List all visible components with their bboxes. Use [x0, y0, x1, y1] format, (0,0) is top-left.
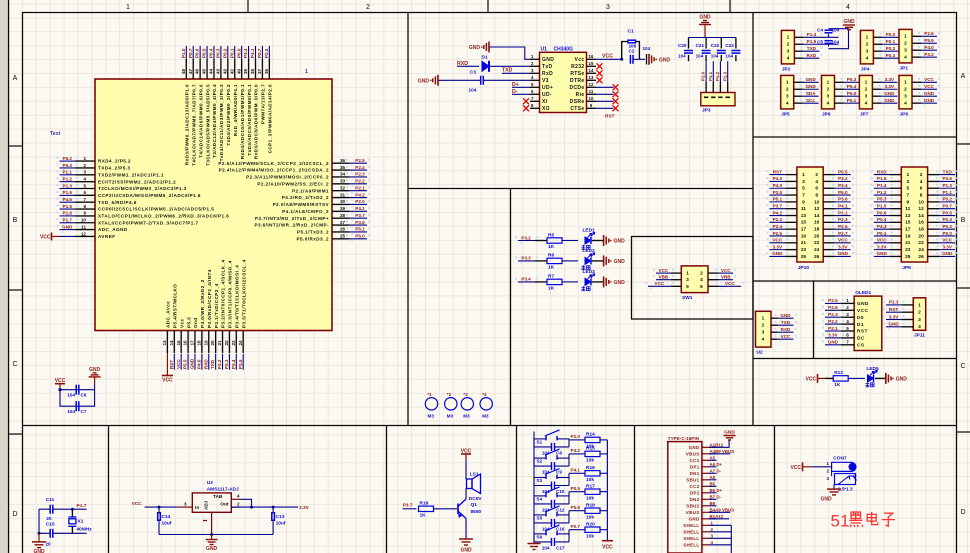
svg-text:Vcc: Vcc	[179, 318, 184, 328]
svg-text:P2.3: P2.3	[838, 217, 848, 222]
svg-text:D1: D1	[857, 322, 864, 328]
U4 pin 7 (TXD_6/RD/P4.6)	[57, 197, 137, 206]
svg-text:P3.4: P3.4	[838, 183, 848, 188]
ground GND at LED5	[885, 373, 887, 384]
U1 pin 16 Vcc	[575, 54, 596, 63]
U4 pin 9 (XTALO/CCP1/MCLKO_2/PWM6_2/RXD_3/ADC6/P1.6)	[57, 211, 230, 220]
zone tick marks left border	[9, 145, 23, 147]
svg-text:2: 2	[865, 86, 868, 92]
U4 pin 1 (RXD4_2/P5.2)	[57, 156, 132, 165]
svg-text:P0.7: P0.7	[188, 48, 193, 58]
svg-text:6: 6	[815, 186, 818, 192]
svg-text:A6 D+: A6 D+	[710, 462, 723, 467]
U1 pin 5 UD+	[530, 82, 553, 91]
svg-text:32: 32	[340, 185, 346, 190]
JP5 pin 2 wire net GND	[794, 84, 822, 93]
svg-text:4: 4	[786, 100, 789, 106]
JP9 pin 26 wire net GND	[928, 251, 959, 260]
J1 pin 1 SHELL	[683, 523, 709, 528]
capacitor C22 104	[711, 38, 726, 62]
section divider vertical x516 (buzzer | buttons)	[516, 426, 518, 553]
svg-text:CCP1_3/PWM6A/AD14/P2.6: CCP1_3/PWM6A/AD14/P2.6	[268, 84, 273, 153]
JP1 pin 4 wire net P3.2	[912, 52, 940, 61]
svg-text:GND: GND	[889, 322, 900, 327]
switch S2	[534, 449, 569, 464]
svg-text:36: 36	[340, 158, 346, 163]
capacitor C20 104	[678, 38, 693, 62]
svg-text:P4.1/ALE/CMPO_2: P4.1/ALE/CMPO_2	[282, 209, 329, 214]
svg-text:P0.1: P0.1	[229, 48, 234, 58]
USB-serial U1 CH340G body	[540, 52, 587, 112]
svg-text:4: 4	[83, 176, 86, 181]
svg-text:P2.2: P2.2	[828, 319, 838, 324]
svg-text:P5.2: P5.2	[63, 156, 73, 161]
U4 pin 4 (ECI/T2/SS/PWM2_2/ADC2/P1.2)	[57, 176, 177, 185]
U4 pin 10 (XTALI/CCP0/PWM7-2/TXD_3/ADC7/P1.7)	[57, 218, 199, 227]
svg-text:3.3V: 3.3V	[299, 505, 310, 511]
svg-text:TxD3/ADC9/AD0/PWM0/P0.1: TxD3/ADC9/AD0/PWM0/P0.1	[247, 84, 252, 156]
svg-text:P1.6: P1.6	[63, 190, 73, 195]
svg-text:CCP0/I2CSCL/SCLK/PWM5_2/ADC/AD: CCP0/I2CSCL/SCLK/PWM5_2/ADC/ADC5/P1.5	[98, 207, 214, 212]
J1 pin A6 D+ DP1	[690, 462, 723, 470]
svg-text:VBUS: VBUS	[686, 451, 700, 456]
U3 TAB pin 4 loop to output	[231, 498, 241, 500]
svg-text:DTRe: DTRe	[570, 78, 584, 84]
svg-text:3: 3	[786, 93, 789, 99]
svg-text:P4.0: P4.0	[924, 45, 934, 50]
svg-text:20: 20	[46, 516, 52, 522]
wire P3.2 to R5	[535, 240, 547, 242]
U4 pin 25 (P5.0/RxD3_2)	[296, 234, 370, 243]
svg-text:P3.3: P3.3	[224, 359, 229, 369]
svg-text:P2.4: P2.4	[355, 165, 365, 170]
wire Q1 emitter to GND	[465, 519, 467, 540]
header JP11 body	[913, 298, 925, 331]
mounting hole M3 *2	[445, 392, 457, 419]
svg-text:R19: R19	[586, 503, 595, 509]
JP10 pin 1 wire net RST	[766, 169, 797, 178]
JP10 pin 16 wire net P2.3	[823, 217, 854, 226]
svg-text:10k: 10k	[586, 477, 594, 483]
JP9 pin 2 wire net TXD	[928, 169, 959, 178]
svg-text:VCC: VCC	[659, 268, 669, 273]
section divider horizontal y188 (CH340 box bottom)	[408, 188, 753, 190]
svg-text:D: D	[960, 509, 965, 516]
svg-text:JP2: JP2	[782, 66, 791, 72]
mounting hole M3 *3	[461, 392, 473, 419]
svg-text:4: 4	[920, 179, 923, 185]
svg-text:JP8: JP8	[900, 111, 909, 117]
svg-text:C: C	[960, 363, 965, 370]
U4 top pin 41 (P0.1)	[229, 46, 238, 136]
crystal X1	[68, 509, 92, 533]
U1 pin 9 CTSe	[570, 103, 596, 112]
svg-text:P0.4: P0.4	[877, 217, 887, 222]
svg-text:P2.3: P2.3	[355, 172, 365, 177]
header JP4 body	[860, 30, 873, 64]
JP10 pin 20 wire net P2.7	[823, 231, 854, 240]
header JP7 body	[859, 75, 872, 109]
U4 bottom pin 21 (P3.2/INT0/CCP1_4/SCLK_4)	[217, 259, 226, 369]
svg-text:P4.0: P4.0	[196, 359, 201, 369]
svg-text:JP3: JP3	[702, 108, 711, 114]
svg-text:2: 2	[918, 310, 921, 316]
svg-text:DC5V: DC5V	[469, 496, 483, 502]
svg-text:GND: GND	[89, 367, 101, 373]
JP9 pin 9 wire net P5.3	[871, 197, 902, 206]
svg-text:24: 24	[918, 247, 924, 253]
capacitor C7 104	[75, 401, 77, 411]
svg-text:C6: C6	[81, 393, 87, 398]
svg-text:4: 4	[787, 55, 790, 61]
capacitor C23 104	[725, 38, 740, 62]
svg-text:P5.5: P5.5	[838, 169, 848, 174]
svg-text:R12: R12	[834, 370, 843, 376]
svg-text:CCP2/I2CSDA/MISO/PWM6_2/ADC6/P: CCP2/I2CSDA/MISO/PWM6_2/ADC6/P1.6	[98, 193, 201, 198]
capacitor C8 104	[534, 439, 569, 456]
svg-text:OLED1: OLED1	[855, 290, 871, 296]
svg-text:P3.5: P3.5	[773, 190, 783, 195]
net label P3.4 wire	[515, 278, 517, 280]
svg-text:4: 4	[237, 494, 240, 499]
wire U3 Out pin 2 to 3.3V	[231, 506, 298, 508]
svg-text:R5: R5	[548, 232, 554, 238]
svg-text:4: 4	[846, 319, 849, 324]
svg-text:31: 31	[340, 192, 346, 197]
svg-text:P4.2: P4.2	[571, 448, 581, 453]
svg-text:C: C	[12, 361, 17, 368]
svg-text:13: 13	[801, 213, 807, 219]
svg-text:RST: RST	[169, 360, 174, 369]
svg-text:P1.6: P1.6	[63, 211, 73, 216]
svg-text:1: 1	[827, 80, 830, 86]
U1 pin 8 XO	[530, 103, 550, 112]
svg-text:GND: GND	[772, 251, 783, 256]
net label P3.3 wire	[515, 257, 517, 259]
svg-text:P1.2: P1.2	[877, 190, 887, 195]
svg-text:1: 1	[865, 80, 868, 86]
JP10 pin 21 wire net VCC	[766, 238, 797, 247]
svg-text:25: 25	[905, 254, 911, 260]
svg-text:4: 4	[846, 4, 850, 11]
svg-text:P3.2/INT0/CCP1_4/SCLK_4: P3.2/INT0/CCP1_4/SCLK_4	[221, 259, 226, 328]
wire buttons right VCC bus	[606, 440, 608, 541]
JP8 pin 2 wire net VCC	[912, 84, 940, 93]
header JP5 body	[781, 75, 794, 109]
svg-text:P5.3: P5.3	[63, 163, 73, 168]
svg-text:3: 3	[762, 330, 765, 336]
svg-text:DP1: DP1	[690, 464, 700, 469]
svg-text:S2: S2	[537, 459, 543, 464]
svg-text:P4.3: P4.3	[773, 183, 783, 188]
resistor R18 1K	[419, 506, 434, 511]
JP10 pin 25 wire net GND	[766, 251, 797, 260]
svg-text:P2.2: P2.2	[355, 179, 365, 184]
OLED1 pin 3 D0 net P2.3	[822, 312, 864, 321]
JP10 pin 18 wire net P2.5	[823, 224, 854, 233]
JP9 pin 8 wire net P1.1	[928, 190, 959, 199]
capacitor C6 104	[75, 385, 77, 395]
U4 bottom pin 23 (P3.4/T0/T1CLKO/MOSI_4)	[231, 265, 240, 370]
ground GND at LED2	[603, 255, 605, 266]
svg-text:R7: R7	[548, 274, 554, 280]
svg-text:JP7: JP7	[860, 111, 869, 117]
svg-text:GND: GND	[924, 91, 935, 96]
svg-text:VCC: VCC	[781, 334, 791, 339]
svg-text:1K: 1K	[548, 286, 555, 292]
svg-text:SHELL: SHELL	[683, 536, 699, 541]
svg-text:13: 13	[905, 213, 911, 219]
svg-text:1: 1	[906, 172, 909, 178]
svg-text:VCC: VCC	[924, 84, 934, 89]
header JP10 body	[797, 167, 823, 262]
svg-text:7: 7	[906, 192, 909, 198]
svg-text:C9: C9	[556, 470, 562, 475]
svg-text:P2.1: P2.1	[828, 326, 838, 331]
svg-text:P1.5: P1.5	[877, 176, 887, 181]
svg-text:104: 104	[67, 409, 75, 414]
svg-text:2: 2	[846, 305, 849, 310]
svg-text:4: 4	[865, 100, 868, 106]
U1 pin 1 GND	[530, 54, 554, 63]
svg-text:P5.0/RxD3_2: P5.0/RxD3_2	[296, 236, 329, 241]
svg-text:Gnd: Gnd	[193, 317, 198, 328]
header JP9 body	[901, 167, 927, 262]
U4 pin 35 (P2.4/A12/PWM4/MISO_2/CCP1_2/I2CSDA_2)	[219, 165, 371, 174]
resistor R5 1K	[547, 238, 562, 243]
svg-text:3: 3	[802, 179, 805, 185]
svg-text:P1.1: P1.1	[942, 190, 952, 195]
svg-text:44: 44	[209, 68, 214, 74]
ground GND at LED1	[603, 235, 605, 246]
svg-text:JP9: JP9	[902, 265, 911, 271]
svg-text:VCC: VCC	[772, 238, 782, 243]
svg-text:2: 2	[866, 41, 869, 47]
svg-text:2: 2	[366, 4, 370, 11]
U4 bottom pin 15 (Vcc)	[176, 318, 185, 369]
resistor R7 1K	[547, 279, 562, 284]
U4 bottom pin 16 (P5.5)	[183, 317, 192, 370]
svg-text:46: 46	[195, 68, 200, 74]
wire P1.5 extension to C5	[819, 43, 838, 45]
JP9 pin 7 wire net P1.2	[871, 190, 902, 199]
svg-text:TXD: TXD	[781, 320, 791, 325]
svg-text:P0.7: P0.7	[571, 524, 581, 529]
section divider vertical x408 (MCU | serial)	[407, 13, 409, 426]
svg-text:3: 3	[866, 48, 869, 54]
JP10 pin 2 wire net P5.5	[823, 169, 854, 178]
svg-text:RST: RST	[857, 329, 868, 335]
wire VCC to LS1	[465, 460, 467, 479]
svg-text:T3/ADC12/AD4/PWM0_4/P0.4: T3/ADC12/AD4/PWM0_4/P0.4	[212, 84, 217, 158]
svg-text:P1.3: P1.3	[722, 71, 727, 81]
svg-text:S4: S4	[537, 496, 543, 501]
power VCC at buttons bus	[602, 541, 613, 551]
svg-text:8550: 8550	[471, 509, 482, 515]
svg-text:12: 12	[814, 206, 820, 212]
svg-text:TXD: TXD	[210, 359, 215, 369]
svg-text:SBU2: SBU2	[686, 503, 699, 508]
svg-text:P0.6: P0.6	[571, 505, 581, 510]
svg-text:P2.1/A9/PWM1: P2.1/A9/PWM1	[292, 188, 329, 193]
svg-text:XI: XI	[542, 99, 548, 105]
svg-text:TAB: TAB	[213, 494, 223, 500]
svg-text:GND: GND	[689, 445, 700, 450]
svg-text:P1.1: P1.1	[708, 71, 713, 81]
svg-text:15: 15	[801, 220, 807, 226]
svg-text:T3CLKO/AD5/PWM0_5/AD5/P0.5: T3CLKO/AD5/PWM0_5/AD5/P0.5	[205, 84, 210, 166]
JP9 pin 22 wire net VCC	[928, 238, 959, 247]
svg-text:P0.6: P0.6	[195, 48, 200, 58]
svg-text:SDA: SDA	[806, 91, 816, 96]
section divider vertical x774 (typec | power jack)	[774, 426, 776, 553]
svg-text:M3: M3	[447, 414, 454, 419]
svg-text:U2: U2	[757, 350, 763, 356]
svg-text:19: 19	[203, 340, 208, 346]
svg-text:P5.1: P5.1	[773, 197, 783, 202]
header JP2 body	[781, 30, 794, 64]
svg-text:2: 2	[700, 271, 703, 277]
wire C4/C5 to GND	[829, 29, 849, 49]
U4 pin 12 (AVREF)	[75, 231, 115, 239]
JP9 pin 21 wire net VCC	[871, 238, 902, 247]
JP7 pin 2 wire net 3.3V	[872, 84, 900, 93]
header JP8 body	[899, 75, 912, 109]
svg-text:10uf: 10uf	[276, 521, 286, 527]
MCU U4 STC8 body	[95, 79, 332, 331]
U4 top pin 44 (P0.4)	[209, 46, 218, 158]
U4 pin 36 (P2.5/A13/PWM5/SCLK_2/CCP2_2/I2CSCL_2)	[218, 158, 370, 167]
switch S6	[534, 525, 569, 540]
svg-text:*3: *3	[463, 392, 468, 397]
svg-text:C20: C20	[678, 43, 687, 48]
svg-text:ECI/T2/SS/PWM2_2/ADC2/P1.2: ECI/T2/SS/PWM2_2/ADC2/P1.2	[98, 179, 176, 184]
svg-text:41: 41	[229, 68, 234, 74]
svg-text:VCC: VCC	[725, 281, 735, 286]
svg-text:19: 19	[801, 233, 807, 239]
svg-text:GND: GND	[877, 251, 888, 256]
svg-text:24: 24	[238, 340, 243, 346]
wire LS1 to Q1 collector	[465, 489, 467, 500]
svg-text:27: 27	[340, 220, 346, 225]
svg-text:VCC: VCC	[942, 238, 952, 243]
JP10 pin 14 wire net P2.1	[823, 210, 854, 219]
svg-text:C5: C5	[817, 40, 823, 45]
svg-text:C21: C21	[696, 43, 705, 48]
svg-text:GND: GND	[924, 98, 935, 103]
JP7 pin 4 wire net GND	[872, 98, 900, 107]
svg-text:AMS1117-ADJ: AMS1117-ADJ	[207, 486, 239, 492]
JP10 pin 22 wire net VCC	[823, 238, 854, 247]
svg-text:B: B	[961, 217, 966, 224]
U1 pin 6 UD-	[530, 89, 552, 98]
U4 top pin 45 (P0.5)	[202, 46, 211, 166]
ground GND at U1 pin 1	[488, 42, 490, 53]
svg-text:RxD: RxD	[542, 71, 553, 77]
wire RXD to D1	[457, 65, 479, 67]
svg-text:3: 3	[846, 312, 849, 317]
section divider vertical x108 (crystal | regulator)	[108, 426, 110, 553]
svg-text:3: 3	[865, 93, 868, 99]
svg-text:XO: XO	[542, 106, 550, 112]
svg-text:5: 5	[906, 186, 909, 192]
svg-text:24: 24	[814, 247, 820, 253]
capacitor C15 20	[46, 522, 55, 538]
svg-text:VCC: VCC	[805, 376, 816, 382]
svg-text:GND: GND	[838, 251, 849, 256]
svg-text:GND: GND	[857, 301, 869, 307]
buzzer LS1 DC5V	[467, 472, 483, 502]
JP10 pin 26 wire net GND	[823, 251, 854, 260]
svg-text:3.3V: 3.3V	[877, 244, 887, 249]
svg-text:3: 3	[184, 501, 187, 506]
ground GND at buzzer	[459, 539, 473, 553]
svg-text:P1.4: P1.4	[807, 32, 817, 37]
section divider horizontal y358 (OLED box bottom)	[753, 358, 957, 360]
svg-text:15: 15	[589, 61, 594, 66]
JP3 pin 1 wire net P1.0	[701, 61, 709, 98]
svg-text:1: 1	[918, 302, 921, 308]
svg-text:12: 12	[589, 82, 594, 87]
svg-text:GND: GND	[206, 546, 218, 552]
svg-text:20: 20	[814, 233, 820, 239]
U4 bottom pin 17 (Gnd)	[190, 317, 199, 369]
ground GND at C3	[437, 75, 439, 86]
svg-text:23: 23	[905, 247, 911, 253]
JP1 pin 3 wire net P4.0	[912, 45, 940, 54]
svg-text:1: 1	[787, 35, 790, 41]
ground GND at U3	[211, 535, 213, 540]
net label P3.2 wire	[515, 236, 517, 238]
wire R16 to VCC bus	[600, 472, 607, 474]
no-connect X at U1 pins 15-13	[597, 63, 603, 69]
svg-text:P5.4: P5.4	[847, 84, 857, 89]
svg-text:2: 2	[83, 163, 86, 168]
svg-text:P0.4: P0.4	[209, 48, 214, 58]
U4 top pin 42 (P0.2)	[222, 46, 231, 146]
svg-text:GND: GND	[33, 549, 45, 553]
wire J1 VBUS pin2	[709, 453, 730, 455]
JP9 pin 4 wire net P4.6	[928, 176, 959, 185]
JP1 pin 2 wire net P5.5	[912, 38, 940, 47]
svg-text:RST: RST	[773, 169, 782, 174]
svg-text:C16: C16	[556, 526, 565, 531]
svg-text:GND: GND	[460, 548, 472, 553]
section divider vertical x634 (buttons | typec)	[634, 426, 636, 553]
svg-text:GND: GND	[806, 77, 817, 82]
svg-text:43: 43	[216, 68, 221, 74]
svg-text:A1B12: A1B12	[710, 442, 724, 447]
JP10 pin 15 wire net P2.2	[766, 217, 797, 226]
wire LED2 to GND	[592, 260, 604, 262]
svg-text:1K: 1K	[548, 244, 555, 250]
svg-text:TYPE-C-16PIN: TYPE-C-16PIN	[668, 436, 700, 441]
svg-text:16: 16	[589, 54, 594, 59]
svg-text:Text: Text	[50, 131, 61, 137]
svg-text:RxD4/ADC10/AD1/PWM1/P0.1: RxD4/ADC10/AD1/PWM1/P0.1	[240, 84, 245, 159]
JP9 pin 25 wire net GND	[871, 251, 902, 260]
svg-text:10k: 10k	[586, 495, 594, 501]
svg-text:104: 104	[832, 40, 840, 45]
svg-text:P5.5: P5.5	[186, 317, 191, 328]
svg-text:P0.0: P0.0	[886, 32, 896, 37]
svg-text:T2CLKO/MOSI/PWM3_2/ADC3/P1.3: T2CLKO/MOSI/PWM3_2/ADC3/P1.3	[98, 186, 187, 191]
svg-text:A: A	[961, 73, 966, 80]
wire R12 to LED5	[849, 377, 865, 379]
svg-text:14: 14	[169, 340, 174, 346]
SW1 pin 4 wire net VBB	[708, 275, 736, 284]
U4 pin 27 (P3.6/INT2/WR_2/RxD_2/CMP-)	[254, 220, 370, 229]
